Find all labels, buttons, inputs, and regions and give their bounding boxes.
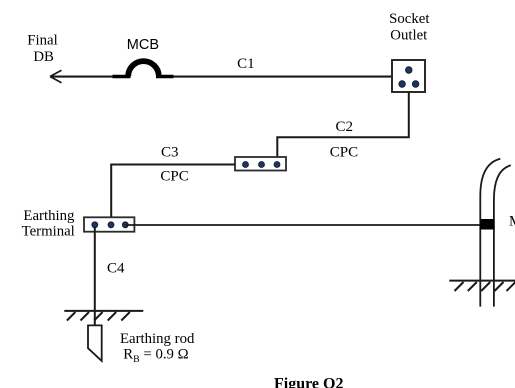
svg-text:DB: DB bbox=[33, 49, 54, 65]
svg-text:M: M bbox=[509, 213, 515, 229]
svg-text:Terminal: Terminal bbox=[22, 224, 75, 240]
svg-text:MCB: MCB bbox=[127, 37, 159, 53]
svg-text:C4: C4 bbox=[107, 260, 125, 276]
svg-text:CPC: CPC bbox=[330, 145, 358, 161]
svg-text:CPC: CPC bbox=[160, 169, 188, 185]
svg-text:C1: C1 bbox=[237, 56, 255, 72]
svg-text:Outlet: Outlet bbox=[390, 28, 428, 44]
svg-text:C3: C3 bbox=[161, 144, 179, 160]
svg-text:Figure Q2: Figure Q2 bbox=[274, 375, 343, 388]
svg-text:Earthing rod: Earthing rod bbox=[120, 331, 195, 347]
svg-text:Socket: Socket bbox=[389, 11, 430, 27]
svg-text:Earthing: Earthing bbox=[23, 208, 75, 224]
svg-text:C2: C2 bbox=[336, 119, 354, 135]
svg-text:Final: Final bbox=[27, 33, 57, 49]
svg-text:RB = 0.9 Ω: RB = 0.9 Ω bbox=[123, 347, 188, 366]
